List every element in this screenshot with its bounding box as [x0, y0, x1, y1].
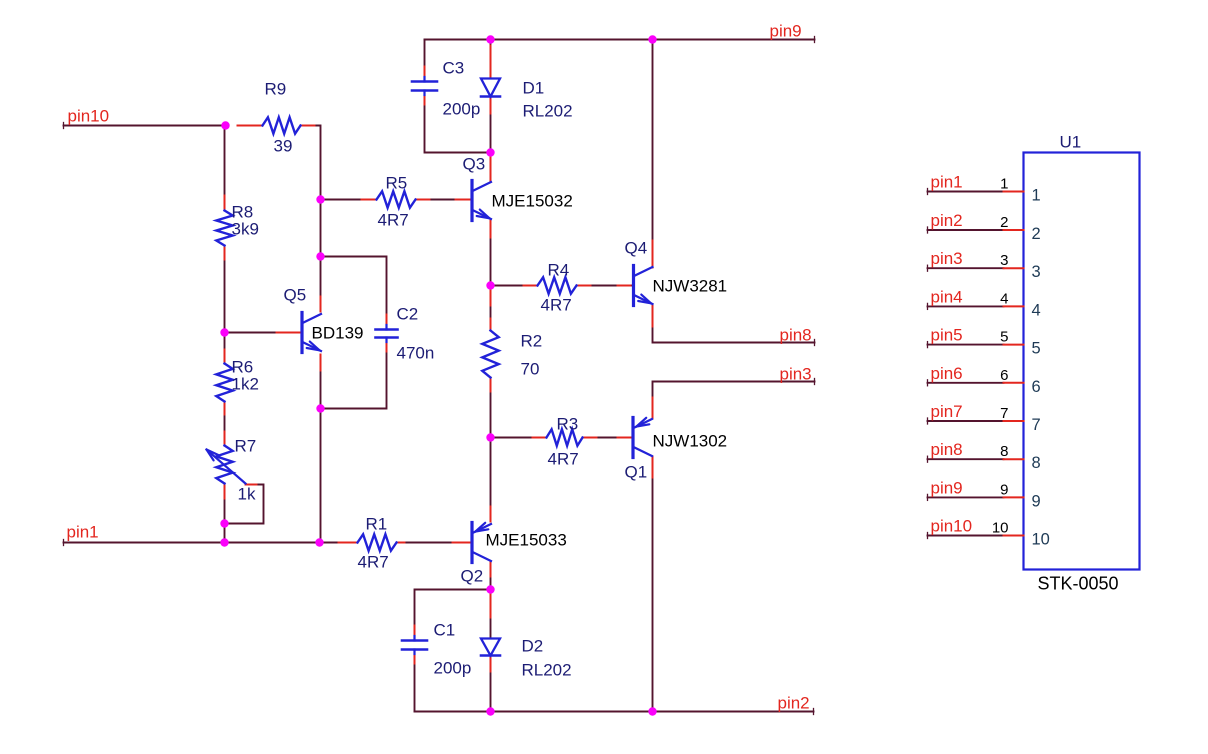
svg-text:U1: U1 [1060, 133, 1082, 152]
svg-text:5: 5 [1000, 329, 1008, 346]
wire R4 to Q4 base [577, 285, 632, 287]
wire pin10 net horizontal [64, 123, 226, 129]
svg-text:4: 4 [1032, 301, 1041, 319]
wire U1 pin10 stub [928, 533, 1004, 539]
pin number 6 outside [1000, 367, 1008, 384]
svg-text:R7: R7 [235, 437, 257, 456]
pin number 1 outside [1000, 176, 1008, 193]
wire R1 to Q2 base [397, 542, 470, 544]
wire U1 pin5 stub [928, 342, 1004, 348]
svg-text:pin8: pin8 [780, 326, 812, 345]
node pin2 label [931, 211, 963, 230]
label Q5 [284, 286, 307, 305]
label U1 [1060, 133, 1082, 152]
node pin7 label [931, 402, 963, 421]
pin number 5 outside [1000, 329, 1008, 346]
pin number 3 inside [1032, 263, 1041, 281]
resistor R6 [216, 364, 232, 402]
capacitor C2 [376, 325, 398, 342]
wire R3 to Q1 base [583, 437, 632, 439]
svg-text:39: 39 [274, 137, 293, 156]
svg-text:RL202: RL202 [522, 661, 572, 680]
transistor Q5 [302, 313, 321, 353]
wire Q2 collector to D2 node [490, 563, 492, 590]
label C2 [397, 305, 419, 324]
node pin8 label [780, 326, 812, 345]
label R2 [521, 332, 543, 351]
value 4R7 of R1 [358, 553, 389, 572]
svg-text:9: 9 [1032, 492, 1041, 510]
svg-text:Q4: Q4 [625, 239, 648, 258]
svg-text:pin7: pin7 [931, 402, 963, 421]
svg-text:R4: R4 [548, 261, 570, 280]
pin number 9 outside [1000, 481, 1008, 498]
node junction 12 at (490,285) [486, 281, 494, 289]
pin number 4 inside [1032, 301, 1041, 319]
svg-text:R9: R9 [265, 80, 287, 99]
pin stub U1 pin3 [1004, 267, 1024, 269]
resistor R3 [547, 429, 583, 445]
label R1 [366, 515, 388, 534]
svg-text:pin10: pin10 [68, 107, 110, 126]
diode D1 [481, 79, 500, 97]
resistor R4 [538, 277, 577, 293]
node pin5 label [931, 326, 963, 345]
svg-text:4R7: 4R7 [378, 211, 409, 230]
node pin3 label [931, 249, 963, 268]
pin number 10 outside [992, 520, 1009, 537]
label R7 [235, 437, 257, 456]
wire R6 to R7 [224, 402, 226, 446]
pin stubs C1 [414, 626, 416, 664]
pin stubs R3 [533, 437, 597, 439]
svg-text:pin10: pin10 [931, 517, 973, 536]
pin stubs D2 [490, 593, 492, 672]
pin stub U1 pin9 [1004, 496, 1024, 498]
svg-text:Q1: Q1 [625, 463, 648, 482]
label Q3 [463, 155, 486, 174]
wire U1 pin4 stub [928, 303, 1004, 309]
wire D2 cathode down [490, 656, 492, 712]
svg-text:6: 6 [1000, 367, 1008, 384]
svg-text:Q3: Q3 [463, 155, 486, 174]
value 200p of C1 [434, 659, 472, 678]
pin stubs R7 [225, 432, 257, 499]
label R8 [232, 203, 254, 222]
wire R5 node down to Q5 collector [320, 200, 322, 312]
wire U1 pin3 stub [928, 265, 1004, 271]
wire R7 wiper hook [225, 485, 264, 524]
wire R3 node to R3 [491, 437, 547, 439]
pin stubs R6 [224, 350, 226, 415]
op-amp U1 body [1024, 153, 1140, 570]
svg-text:STK-0050: STK-0050 [1038, 574, 1119, 594]
pin stub U1 pin2 [1004, 229, 1024, 231]
label R6 [232, 358, 254, 377]
node junction 1 at (225,125) [221, 121, 229, 129]
pin number 5 inside [1032, 340, 1041, 358]
value 1k [238, 485, 256, 504]
transistor Q4 [634, 266, 653, 306]
resistor R1 [358, 534, 397, 550]
pin number 6 inside [1032, 378, 1041, 396]
svg-text:R3: R3 [557, 415, 579, 434]
svg-text:70: 70 [521, 360, 540, 379]
svg-text:Q5: Q5 [284, 286, 307, 305]
wire C2 bottom branch [321, 338, 387, 409]
svg-text:D2: D2 [522, 637, 544, 656]
diode D2 [481, 639, 500, 656]
label D2 [522, 637, 544, 656]
svg-text:pin4: pin4 [931, 287, 963, 306]
svg-text:4R7: 4R7 [541, 296, 572, 315]
svg-text:4R7: 4R7 [358, 553, 389, 572]
transistor Q3 [472, 181, 491, 221]
wire U1 pin9 stub [928, 494, 1004, 500]
value NJW3281 [653, 277, 728, 296]
node junction 8 at (319,542) [315, 538, 323, 546]
value NJW1302 [653, 432, 728, 451]
node junction 6 at (224,523) [220, 519, 228, 527]
pin number 1 inside [1032, 187, 1041, 205]
pin stubs R4 [524, 285, 591, 287]
wire U1 pin6 stub [928, 380, 1004, 386]
pin stubs Q3 [456, 153, 491, 238]
svg-text:200p: 200p [443, 100, 481, 119]
wire U1 pin2 stub [928, 227, 1004, 233]
label Q1 [625, 463, 648, 482]
wire Q5 emitter down to pin1 rail [320, 355, 322, 543]
pin number 7 outside [1000, 405, 1008, 422]
wire left column top (node to R8) [224, 126, 226, 209]
svg-text:200p: 200p [434, 659, 472, 678]
label D1 [523, 79, 545, 98]
wire bottom rail pin2 net [415, 709, 814, 715]
pin stubs Q2 [453, 507, 491, 577]
svg-text:2: 2 [1000, 214, 1008, 231]
pin number 9 inside [1032, 492, 1041, 510]
svg-text:pin1: pin1 [931, 173, 963, 192]
wire D2 anode [490, 593, 492, 639]
svg-text:RL202: RL202 [523, 102, 573, 121]
wire Q1 collector down to bottom rail [652, 457, 654, 712]
wire R5 to Q3 base [416, 199, 471, 201]
pin stubs R2 [490, 288, 492, 392]
svg-text:pin3: pin3 [780, 365, 812, 384]
svg-text:R5: R5 [386, 174, 408, 193]
svg-text:R2: R2 [521, 332, 543, 351]
wire R4 node to R2 [490, 286, 492, 331]
wire R2 to R3 node [490, 378, 492, 438]
node junction 15 at (490,711) [486, 707, 494, 715]
label R9 [265, 80, 287, 99]
value MJE15033 [486, 531, 567, 550]
wire top rail pin9 net [425, 37, 815, 43]
value 1k2 [232, 375, 259, 394]
svg-text:9: 9 [1000, 481, 1008, 498]
resistor R8 [216, 211, 232, 246]
wire R7 to pin1 rail [224, 484, 226, 543]
svg-text:D1: D1 [523, 79, 545, 98]
svg-text:10: 10 [992, 520, 1009, 537]
value STK-0050 [1038, 574, 1119, 594]
svg-text:MJE15032: MJE15032 [492, 192, 573, 211]
svg-text:8: 8 [1032, 454, 1041, 472]
svg-text:6: 6 [1032, 378, 1041, 396]
node junction 5 at (320,408) [316, 404, 324, 412]
label C1 [434, 621, 456, 640]
node pin4 label [931, 287, 963, 306]
wire C1 bottom branch [414, 650, 416, 712]
svg-text:C1: C1 [434, 621, 456, 640]
value 200p of C3 [443, 100, 481, 119]
value 4R7 of R4 [541, 296, 572, 315]
wire U1 pin7 stub [928, 418, 1004, 424]
pin stub U1 pin7 [1004, 420, 1024, 422]
svg-text:pin9: pin9 [770, 22, 802, 41]
svg-text:NJW1302: NJW1302 [653, 432, 728, 451]
svg-text:470n: 470n [397, 344, 435, 363]
node junction 2 at (320,199) [316, 195, 324, 203]
node junction 13 at (490,437) [486, 433, 494, 441]
node junction 14 at (490,589) [486, 585, 494, 593]
resistor R9 [263, 117, 301, 133]
value 70 [521, 360, 540, 379]
wire pin1 rail left [64, 540, 358, 546]
node pin10 label [68, 107, 110, 126]
pin number 3 outside [1000, 252, 1008, 269]
resistor R5 [377, 191, 416, 207]
pin number 2 outside [1000, 214, 1008, 231]
node pin1 label [67, 523, 99, 542]
pin stubs R9 [238, 125, 315, 127]
wire Q3 emitter down to R4 node [490, 221, 492, 286]
svg-text:1k2: 1k2 [232, 375, 259, 394]
wire D1 anode [490, 40, 492, 79]
pin number 8 inside [1032, 454, 1041, 472]
svg-text:pin6: pin6 [931, 364, 963, 383]
node junction 7 at (224,542) [220, 538, 228, 546]
pin number 8 outside [1000, 443, 1008, 460]
wire D1 cathode to Q3 node [490, 97, 492, 153]
resistor R2 [482, 331, 498, 378]
node pin3 label [780, 365, 812, 384]
svg-text:3: 3 [1000, 252, 1008, 269]
label C3 [443, 59, 465, 78]
node pin9 label [770, 22, 802, 41]
capacitor C3 [412, 77, 437, 95]
wire Q5 base [225, 332, 301, 334]
svg-text:8: 8 [1000, 443, 1008, 460]
label Q4 [625, 239, 648, 258]
pin stub U1 pin1 [1004, 191, 1024, 193]
pin stubs R5 [362, 199, 430, 201]
node junction 3 at (320,256) [316, 252, 324, 260]
value 4R7 of R5 [378, 211, 409, 230]
pin stub U1 pin5 [1004, 344, 1024, 346]
svg-text:pin2: pin2 [931, 211, 963, 230]
wire C3 branch top [424, 40, 426, 82]
wire R5 node to R5 [321, 199, 377, 201]
node pin8 label [931, 440, 963, 459]
pin stub U1 pin6 [1004, 382, 1024, 384]
svg-text:NJW3281: NJW3281 [653, 277, 728, 296]
node junction 9 at (490,39) [486, 35, 494, 43]
value 3k9 [232, 220, 259, 239]
pin stubs D1 [490, 46, 492, 114]
value MJE15032 [492, 192, 573, 211]
svg-text:2: 2 [1032, 225, 1041, 243]
wire C2 top branch [321, 257, 387, 330]
wire R9 right elbow down to R5 node [301, 126, 321, 200]
label R4 [548, 261, 570, 280]
value 470n [397, 344, 435, 363]
svg-text:pin8: pin8 [931, 440, 963, 459]
svg-text:C3: C3 [443, 59, 465, 78]
svg-text:1k: 1k [238, 485, 256, 504]
wire U1 pin1 stub [928, 189, 1004, 195]
pin stubs C3 [424, 67, 426, 105]
capacitor C1 [402, 636, 427, 654]
svg-text:pin9: pin9 [931, 478, 963, 497]
pin stub U1 pin10 [1004, 535, 1024, 537]
node pin6 label [931, 364, 963, 383]
svg-text:4: 4 [1000, 290, 1008, 307]
pin stubs Q5 [277, 297, 321, 371]
label R3 [557, 415, 579, 434]
svg-text:MJE15033: MJE15033 [486, 531, 567, 550]
transistor Q1 [633, 418, 652, 458]
wire Q4 emitter to pin8 [653, 305, 815, 346]
svg-text:pin3: pin3 [931, 249, 963, 268]
svg-text:1: 1 [1032, 187, 1041, 205]
svg-text:1: 1 [1000, 176, 1008, 193]
node pin10 label [931, 517, 973, 536]
svg-text:pin5: pin5 [931, 326, 963, 345]
trimmer R7 [207, 446, 246, 484]
wire C3 branch bottom [425, 91, 491, 153]
node junction 16 at (652,711) [648, 707, 656, 715]
pin stubs C2 [386, 315, 388, 352]
pin stubs Q1 [618, 398, 653, 478]
wire R3 node down to Q2 emitter [490, 438, 492, 522]
node junction 4 at (224,332) [220, 328, 228, 336]
pin number 2 inside [1032, 225, 1041, 243]
wire R4 node to R4 [491, 285, 538, 287]
pin stubs R8 [224, 196, 226, 260]
wire pin3 net to Q1 emitter [653, 379, 815, 419]
svg-text:3: 3 [1032, 263, 1041, 281]
svg-text:10: 10 [1032, 531, 1050, 549]
wire U1 pin8 stub [928, 456, 1004, 462]
svg-text:Q2: Q2 [461, 567, 484, 586]
pin stub U1 pin8 [1004, 458, 1024, 460]
svg-text:4R7: 4R7 [548, 450, 579, 469]
label Q2 [461, 567, 484, 586]
pin stub U1 pin4 [1004, 305, 1024, 307]
value 39 [274, 137, 293, 156]
wire C1 top branch [415, 590, 491, 641]
svg-text:7: 7 [1000, 405, 1008, 422]
value 4R7 of R3 [548, 450, 579, 469]
wire Q4 collector from top rail [652, 40, 654, 268]
pin number 4 outside [1000, 290, 1008, 307]
svg-text:pin1: pin1 [67, 523, 99, 542]
svg-text:BD139: BD139 [312, 324, 364, 343]
value BD139 [312, 324, 364, 343]
value RL202 of D1 [523, 102, 573, 121]
node pin9 label [931, 478, 963, 497]
node pin1 label [931, 173, 963, 192]
svg-text:C2: C2 [397, 305, 419, 324]
wire R8 to base node [224, 247, 226, 333]
svg-text:3k9: 3k9 [232, 220, 259, 239]
value RL202 of D2 [522, 661, 572, 680]
wire base node to R6 [224, 333, 226, 364]
node pin2 label [778, 694, 810, 713]
svg-text:7: 7 [1032, 416, 1041, 434]
pin number 7 inside [1032, 416, 1041, 434]
pin stubs Q4 [618, 241, 653, 327]
pin number 10 inside [1032, 531, 1050, 549]
svg-text:R1: R1 [366, 515, 388, 534]
node junction 10 at (652,39) [648, 35, 656, 43]
pin stubs R1 [339, 542, 405, 544]
svg-text:5: 5 [1032, 340, 1041, 358]
svg-text:pin2: pin2 [778, 694, 810, 713]
label R5 [386, 174, 408, 193]
node junction 11 at (490,152) [486, 148, 494, 156]
transistor Q2 [472, 523, 491, 563]
